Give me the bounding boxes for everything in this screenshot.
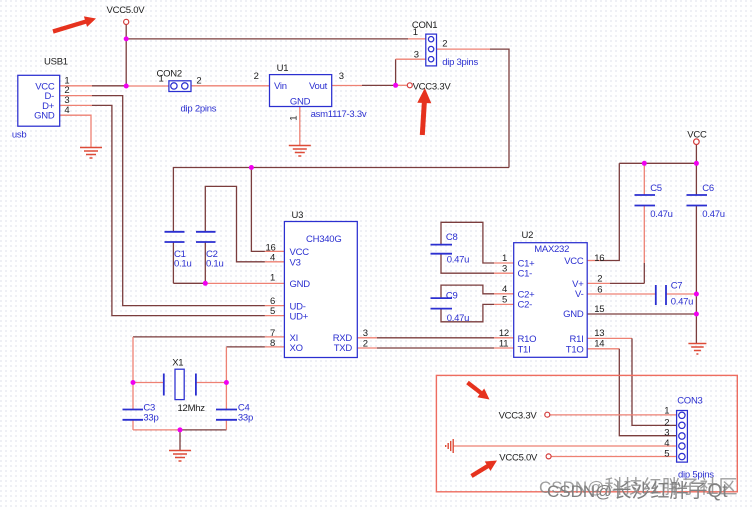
svg-text:C9: C9	[446, 291, 458, 302]
svg-text:0.47u: 0.47u	[671, 296, 694, 307]
svg-text:R1I: R1I	[569, 334, 583, 345]
svg-text:VCC5.0V: VCC5.0V	[499, 453, 538, 464]
svg-text:2: 2	[196, 76, 201, 87]
svg-text:USB1: USB1	[44, 57, 68, 68]
svg-text:asm1117-3.3v: asm1117-3.3v	[311, 109, 367, 120]
svg-text:0.47u: 0.47u	[702, 209, 725, 220]
svg-text:V3: V3	[290, 257, 301, 268]
svg-text:U1: U1	[277, 63, 289, 74]
svg-text:3: 3	[414, 50, 419, 61]
svg-text:C1-: C1-	[518, 269, 533, 280]
svg-text:0.47u: 0.47u	[447, 254, 470, 265]
svg-text:CSDN@长沙红胖子Qt: CSDN@长沙红胖子Qt	[547, 480, 728, 502]
svg-text:C1+: C1+	[518, 258, 536, 269]
svg-text:C2+: C2+	[518, 289, 536, 300]
svg-text:5: 5	[502, 294, 507, 305]
svg-text:1: 1	[413, 27, 418, 38]
svg-text:T1I: T1I	[518, 344, 531, 355]
svg-text:14: 14	[594, 338, 604, 349]
svg-text:R1O: R1O	[518, 334, 537, 345]
svg-text:Vin: Vin	[274, 81, 287, 92]
svg-text:12Mhz: 12Mhz	[178, 403, 206, 414]
svg-text:5: 5	[664, 448, 669, 459]
svg-text:0.1u: 0.1u	[174, 258, 192, 269]
svg-text:4: 4	[664, 438, 669, 449]
svg-text:0.1u: 0.1u	[206, 258, 224, 269]
svg-text:CH340G: CH340G	[306, 234, 341, 245]
svg-text:Vout: Vout	[309, 81, 328, 92]
svg-text:VCC: VCC	[564, 256, 584, 267]
svg-text:5: 5	[270, 306, 275, 317]
svg-text:T1O: T1O	[566, 344, 584, 355]
svg-text:dip 2pins: dip 2pins	[181, 104, 217, 115]
svg-text:3: 3	[363, 328, 368, 339]
svg-text:4: 4	[502, 284, 507, 295]
svg-text:1: 1	[270, 272, 275, 283]
svg-text:CON3: CON3	[677, 396, 702, 407]
svg-text:UD+: UD+	[290, 311, 309, 322]
svg-text:VCC3.3V: VCC3.3V	[499, 410, 538, 421]
svg-text:U3: U3	[292, 210, 304, 221]
svg-text:GND: GND	[563, 309, 584, 320]
svg-text:1: 1	[159, 74, 164, 85]
svg-text:GND: GND	[34, 111, 55, 122]
svg-text:12: 12	[499, 328, 509, 339]
svg-text:33p: 33p	[143, 413, 158, 424]
svg-text:X1: X1	[172, 358, 183, 369]
svg-text:3: 3	[339, 71, 344, 82]
svg-text:11: 11	[499, 338, 508, 349]
svg-text:C6: C6	[702, 183, 714, 194]
svg-text:GND: GND	[290, 279, 311, 290]
svg-text:TXD: TXD	[334, 343, 353, 354]
svg-text:VCC5.0V: VCC5.0V	[107, 5, 146, 16]
svg-text:C7: C7	[671, 281, 683, 292]
svg-text:3: 3	[502, 264, 507, 275]
svg-text:4: 4	[270, 253, 275, 264]
svg-text:6: 6	[597, 284, 602, 295]
svg-text:VCC3.3V: VCC3.3V	[413, 81, 452, 92]
svg-text:GND: GND	[290, 97, 311, 108]
svg-text:dip 3pins: dip 3pins	[442, 57, 478, 68]
svg-text:13: 13	[594, 328, 604, 339]
svg-text:33p: 33p	[238, 413, 253, 424]
svg-text:MAX232: MAX232	[534, 244, 569, 255]
svg-text:2: 2	[442, 38, 447, 49]
svg-text:8: 8	[270, 338, 275, 349]
svg-text:VCC: VCC	[687, 130, 707, 141]
svg-text:V-: V-	[575, 289, 584, 300]
svg-text:16: 16	[594, 253, 604, 264]
svg-text:4: 4	[64, 105, 69, 116]
svg-text:2: 2	[363, 338, 368, 349]
svg-text:XO: XO	[290, 343, 303, 354]
svg-text:2: 2	[254, 71, 259, 82]
svg-text:C2-: C2-	[518, 300, 533, 311]
svg-text:1: 1	[664, 406, 669, 417]
svg-text:1: 1	[502, 253, 507, 264]
svg-text:2: 2	[597, 274, 602, 285]
svg-text:U2: U2	[522, 230, 534, 241]
svg-text:C5: C5	[650, 183, 662, 194]
svg-text:0.47u: 0.47u	[650, 209, 673, 220]
svg-text:C8: C8	[446, 232, 458, 243]
svg-text:usb: usb	[12, 130, 27, 141]
svg-text:VCC: VCC	[290, 247, 310, 258]
svg-text:1: 1	[289, 116, 300, 121]
svg-text:15: 15	[594, 304, 604, 315]
svg-text:0.47u: 0.47u	[447, 313, 470, 324]
